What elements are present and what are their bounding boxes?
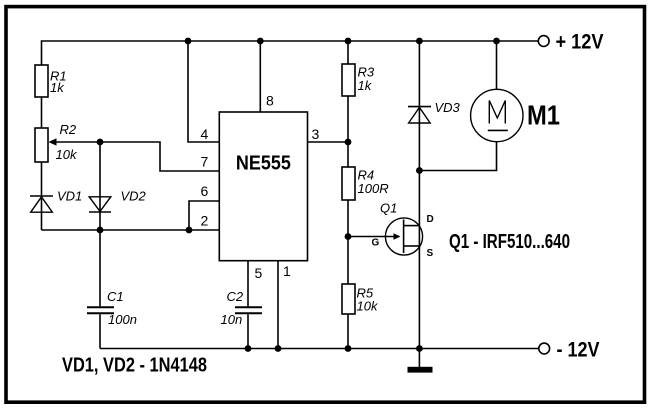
svg-text:100R: 100R — [358, 181, 389, 196]
gate arrowhead — [394, 233, 401, 240]
wire pin 5 to C2 — [247, 261, 249, 307]
svg-text:6: 6 — [201, 183, 209, 199]
svg-text:+ 12V: + 12V — [556, 30, 605, 54]
svg-text:D: D — [427, 214, 434, 225]
svg-text:R2: R2 — [60, 122, 77, 137]
terminal +12V — [538, 36, 549, 47]
svg-text:C1: C1 — [107, 289, 124, 304]
wire motor top lead — [496, 41, 498, 90]
op-amp U1 NE555 box — [219, 112, 307, 261]
svg-text:S: S — [427, 248, 434, 259]
node pin1 bottom — [275, 345, 282, 352]
wire top +12V rail — [42, 41, 539, 65]
node rail R3 — [345, 38, 352, 45]
svg-text:5: 5 — [255, 265, 263, 281]
svg-text:NE555: NE555 — [236, 153, 291, 175]
svg-text:7: 7 — [201, 154, 209, 170]
svg-text:10k: 10k — [56, 147, 78, 162]
node gate junction — [345, 233, 352, 240]
svg-text:M1: M1 — [527, 100, 560, 131]
node pin6 tie junction — [186, 227, 193, 234]
wire pin 3 to R3/R4 node — [308, 141, 349, 143]
svg-text:Q1: Q1 — [380, 201, 397, 216]
wire R5 to bottom rail — [347, 314, 349, 349]
node drain bottom rail — [416, 345, 423, 352]
wire bottom -12V rail — [100, 348, 539, 350]
svg-text:Q1 - IRF510...640: Q1 - IRF510...640 — [449, 231, 570, 253]
wire gate — [348, 236, 396, 238]
svg-text:VD3: VD3 — [435, 100, 461, 115]
node rail pin8 — [257, 38, 264, 45]
diode VD2 — [89, 197, 111, 212]
node pin3 junction — [345, 139, 352, 146]
wire pin 2 net — [42, 229, 220, 231]
svg-text:4: 4 — [201, 126, 209, 142]
wire drain rail vertical — [418, 41, 420, 349]
svg-text:2: 2 — [201, 213, 209, 229]
wire R2 bottom to VD1 — [41, 162, 43, 230]
wire pin 6 tie — [189, 201, 219, 230]
svg-text:G: G — [372, 238, 380, 249]
node rail VD3 — [416, 38, 423, 45]
resistor R3 — [342, 64, 355, 96]
node motor/drain junction — [416, 167, 423, 174]
diode VD3 — [408, 107, 431, 123]
svg-text:1k: 1k — [358, 78, 373, 93]
ground — [408, 349, 433, 373]
svg-text:3: 3 — [312, 126, 320, 142]
svg-text:100n: 100n — [108, 312, 137, 327]
node rail motor — [493, 38, 500, 45]
resistor R5 — [342, 284, 355, 314]
svg-text:1: 1 — [283, 263, 291, 279]
wire R4 to R5 — [347, 200, 349, 284]
svg-text:- 12V: - 12V — [557, 339, 600, 362]
svg-text:8: 8 — [266, 93, 274, 109]
wire R3 top lead — [347, 41, 349, 64]
svg-text:10n: 10n — [221, 312, 243, 327]
potentiometer R2 — [35, 128, 48, 162]
node wiper/VD2 junction — [97, 139, 104, 146]
capacitor C2 — [235, 307, 262, 348]
transistor Q1 — [385, 218, 422, 255]
node rail pin4 — [185, 38, 192, 45]
capacitor C1 — [87, 230, 114, 349]
motor M1 — [471, 89, 523, 141]
wire pin 4 to rail — [188, 41, 219, 142]
svg-text:10k: 10k — [357, 299, 379, 314]
svg-text:VD2: VD2 — [121, 189, 147, 204]
resistor R4 — [342, 167, 355, 200]
R2 wiper arrow — [49, 138, 57, 146]
wire R1 to R2 — [41, 97, 43, 128]
terminal -12V — [539, 343, 550, 354]
node R5 bottom — [345, 345, 352, 352]
wire pin 1 to bottom rail — [277, 261, 279, 349]
resistor R1 — [35, 65, 48, 97]
wire motor bottom to drain — [419, 142, 496, 171]
svg-text:1k: 1k — [50, 80, 65, 95]
svg-text:C2: C2 — [227, 289, 244, 304]
wire pin 8 to rail — [259, 41, 261, 112]
svg-text:VD1, VD2 - 1N4148: VD1, VD2 - 1N4148 — [62, 355, 207, 377]
node VD2 bottom junction — [97, 227, 104, 234]
svg-text:VD1: VD1 — [57, 189, 82, 204]
node C2 bottom — [245, 345, 252, 352]
wire R2 wiper to pin 7 — [54, 142, 219, 171]
diode VD1 — [30, 196, 53, 212]
wire VD2 top lead — [99, 142, 101, 230]
wire R3 to R4 — [347, 96, 349, 167]
